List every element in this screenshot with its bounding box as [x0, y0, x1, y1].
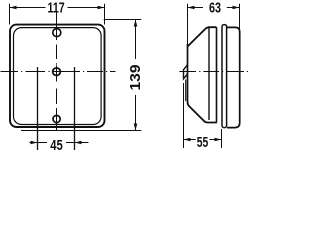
side view fixing tab — [184, 65, 188, 79]
dim 63 line — [188, 7, 204, 9]
mounting hole right (extension line down) — [74, 67, 76, 150]
dim 55 arrows — [184, 138, 191, 142]
svg-text:55: 55 — [197, 134, 209, 151]
dim 45 arrows — [31, 141, 38, 145]
screw hole bottom — [53, 115, 60, 122]
dim 117 arrows — [10, 6, 17, 10]
side view housing rear vertical — [216, 27, 218, 122]
dim 63 extension right — [239, 4, 241, 30]
svg-text:117: 117 — [48, 0, 65, 16]
side view horizontal centerline — [179, 71, 248, 73]
mounting hole left (extension line down) — [37, 67, 39, 150]
side view lens front edge + dim 63 extension left — [187, 4, 189, 46]
horizontal centerline front view — [1, 71, 116, 73]
svg-text:139: 139 — [127, 65, 144, 91]
dim 45 line — [30, 142, 48, 144]
front view outer housing — [10, 25, 105, 127]
svg-text:45: 45 — [50, 137, 63, 153]
side view lens top slant — [188, 27, 217, 46]
dim 55 extension right — [221, 129, 223, 148]
dim 139 line — [135, 20, 137, 60]
side view lens inner line — [185, 80, 187, 102]
side view rubber rim — [222, 25, 227, 128]
dim 55 extension left — [183, 83, 185, 148]
dim 139 extension bottom — [21, 130, 141, 132]
dim 117 extension right — [104, 4, 106, 25]
center mark circle — [53, 68, 61, 76]
side view lens bottom slant — [188, 102, 217, 123]
dim 139 arrows — [134, 20, 138, 27]
dim 63 arrows — [188, 6, 195, 10]
dim 117 extension left — [9, 4, 11, 25]
svg-text:63: 63 — [209, 0, 221, 16]
dim 139 extension top — [104, 19, 142, 21]
dim 117 line — [10, 7, 46, 9]
vertical centerline front view — [56, 12, 58, 131]
front view lens inner edge — [14, 28, 102, 125]
side view housing front vertical — [208, 28, 210, 120]
side view back cover — [227, 27, 240, 127]
dim 55 line — [184, 139, 196, 141]
screw hole top — [53, 29, 61, 37]
